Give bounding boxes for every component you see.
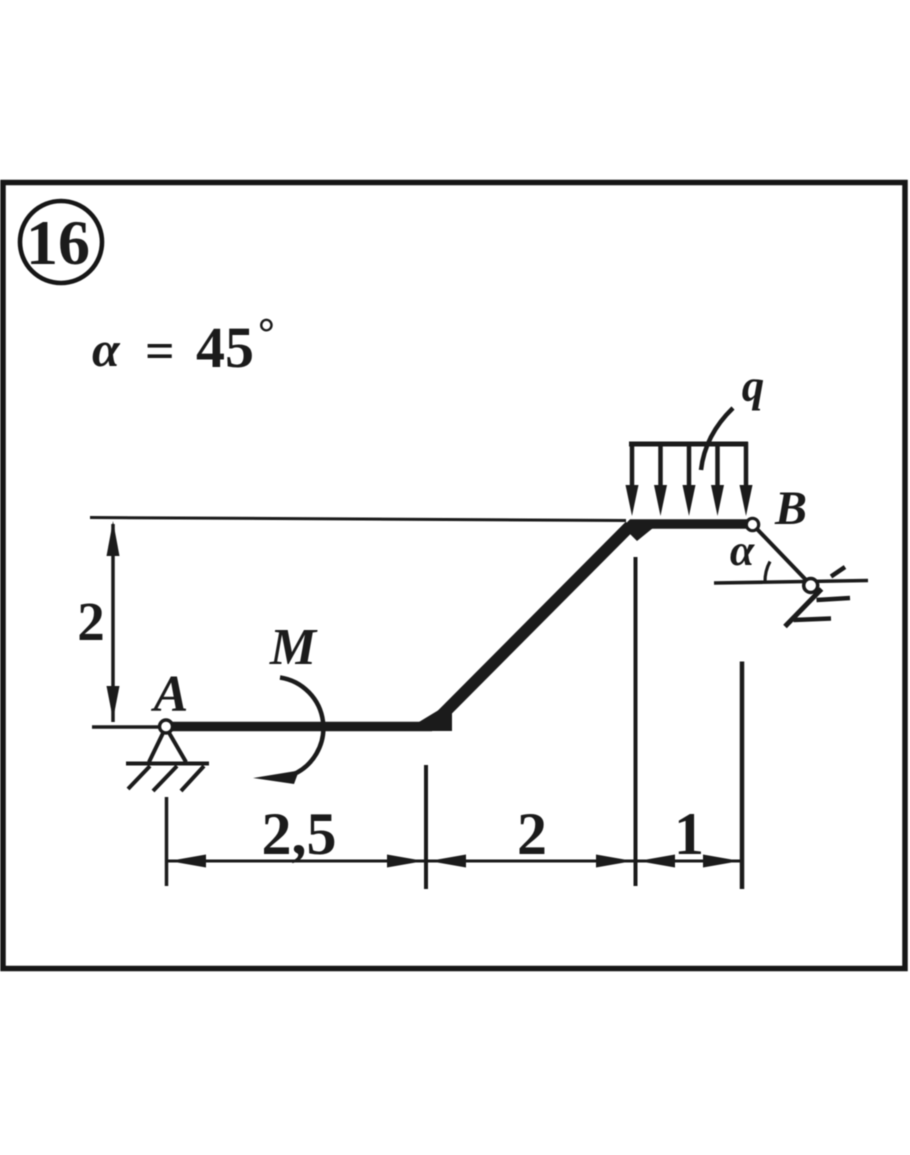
extension line below upper bend [634,557,638,886]
distributed load q box [626,442,753,516]
alpha = 45 deg label [92,311,275,380]
ground support at end of link [714,567,868,627]
pin support A [126,731,209,791]
problem number circle 16 [20,201,102,283]
svg-text:1: 1 [674,801,704,867]
q leader curve [701,408,733,470]
pin circle at ground support [804,579,818,593]
joint wedge at lower bend [404,702,452,731]
svg-text:2: 2 [517,801,547,867]
dimension line bottom [168,860,741,863]
svg-text:2: 2 [77,591,105,652]
svg-text:=: = [145,323,175,380]
svg-text:2,5: 2,5 [262,801,337,867]
top reference line [90,518,626,521]
joint wedge at upper bend [624,528,653,541]
extension tick at lower bend [424,765,428,889]
svg-text:45: 45 [196,315,254,380]
dim arrowheads [169,855,740,868]
link rod from B to ground pin [756,528,808,582]
thin beam lead line left of A [92,725,168,729]
svg-text:°: ° [258,311,275,357]
angle arc alpha at support [765,562,770,583]
svg-text:q: q [742,361,765,411]
frame border [3,183,905,969]
svg-text:α: α [730,526,755,575]
hinge circle B [746,518,758,530]
inclined beam segment (thicker) [434,526,630,723]
svg-text:B: B [774,482,807,535]
svg-text:α: α [92,321,121,377]
vertical dimension line 2 (left) [107,521,120,722]
hinge circle A [160,720,173,733]
moment M arc [253,678,323,785]
extension tick at A [165,797,169,886]
extension line below B [740,662,745,890]
svg-text:16: 16 [26,207,90,278]
svg-text:A: A [151,666,189,723]
svg-text:M: M [269,619,318,676]
beam A to B (bent bar) [166,524,749,727]
